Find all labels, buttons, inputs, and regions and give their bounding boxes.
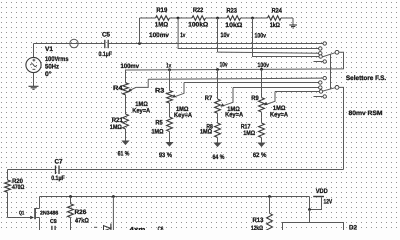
- svg-text:62 %: 62 %: [253, 152, 267, 159]
- svg-text:1MΩ: 1MΩ: [243, 130, 255, 137]
- svg-text:64 %: 64 %: [213, 154, 225, 161]
- svg-text:C7: C7: [55, 159, 63, 166]
- svg-text:R9: R9: [251, 95, 259, 102]
- svg-text:50Hz: 50Hz: [45, 64, 60, 71]
- svg-text:100kΩ: 100kΩ: [188, 22, 208, 29]
- svg-text:10v: 10v: [221, 32, 230, 39]
- svg-text:R13: R13: [253, 217, 264, 224]
- svg-text:1MΩ: 1MΩ: [200, 128, 212, 135]
- svg-text:0.1µF: 0.1µF: [99, 51, 113, 58]
- svg-text:100mv: 100mv: [149, 32, 169, 39]
- svg-text:100v: 100v: [255, 32, 267, 39]
- svg-text:1v: 1v: [180, 32, 185, 39]
- svg-text:10v: 10v: [220, 62, 228, 69]
- svg-text:D2: D2: [349, 225, 357, 231]
- svg-text:Selettore F.S.: Selettore F.S.: [346, 75, 386, 82]
- svg-text:0.1µF: 0.1µF: [51, 175, 65, 182]
- svg-text:1MΩ: 1MΩ: [110, 124, 122, 131]
- svg-text:Key=A: Key=A: [270, 112, 288, 119]
- svg-text:12kΩ: 12kΩ: [251, 225, 263, 230]
- svg-text:1MΩ: 1MΩ: [152, 128, 164, 135]
- svg-text:47kΩ: 47kΩ: [75, 218, 89, 225]
- svg-text:12V: 12V: [324, 199, 333, 206]
- svg-text:R22: R22: [193, 7, 204, 14]
- svg-text:1v: 1v: [166, 63, 171, 70]
- svg-text:2N3486: 2N3486: [40, 210, 58, 216]
- svg-text:93 %: 93 %: [159, 152, 172, 159]
- svg-text:4×m: 4×m: [130, 227, 146, 231]
- svg-text:Key=A: Key=A: [225, 112, 243, 119]
- svg-text:470Ω: 470Ω: [12, 184, 24, 191]
- svg-text:10kΩ: 10kΩ: [225, 22, 242, 29]
- svg-text:V1: V1: [45, 46, 53, 53]
- svg-text:R24: R24: [272, 8, 283, 15]
- svg-text:R19: R19: [156, 7, 167, 14]
- svg-text:R26: R26: [75, 209, 87, 216]
- svg-text:R23: R23: [227, 7, 238, 14]
- svg-text:R5: R5: [155, 119, 163, 126]
- svg-text:0°: 0°: [45, 71, 52, 78]
- svg-text:Key=A: Key=A: [174, 112, 192, 119]
- svg-text:100Vrms: 100Vrms: [45, 56, 69, 63]
- svg-text:R7: R7: [205, 95, 213, 102]
- svg-text:100v: 100v: [258, 62, 270, 69]
- svg-text:Key=A: Key=A: [132, 107, 150, 114]
- svg-text:1kΩ: 1kΩ: [270, 22, 280, 29]
- svg-text:80mv RSM: 80mv RSM: [349, 110, 383, 117]
- svg-text:R3: R3: [155, 87, 165, 94]
- svg-text:C9: C9: [50, 218, 57, 225]
- svg-text:C6: C6: [158, 226, 164, 230]
- svg-text:1MΩ: 1MΩ: [155, 22, 168, 29]
- svg-text:61 %: 61 %: [118, 150, 130, 157]
- svg-text:VDD: VDD: [316, 188, 328, 195]
- svg-text:R4: R4: [113, 85, 123, 92]
- svg-text:100mv: 100mv: [121, 63, 140, 70]
- svg-text:Q1: Q1: [19, 210, 24, 216]
- svg-text:C5: C5: [102, 31, 110, 38]
